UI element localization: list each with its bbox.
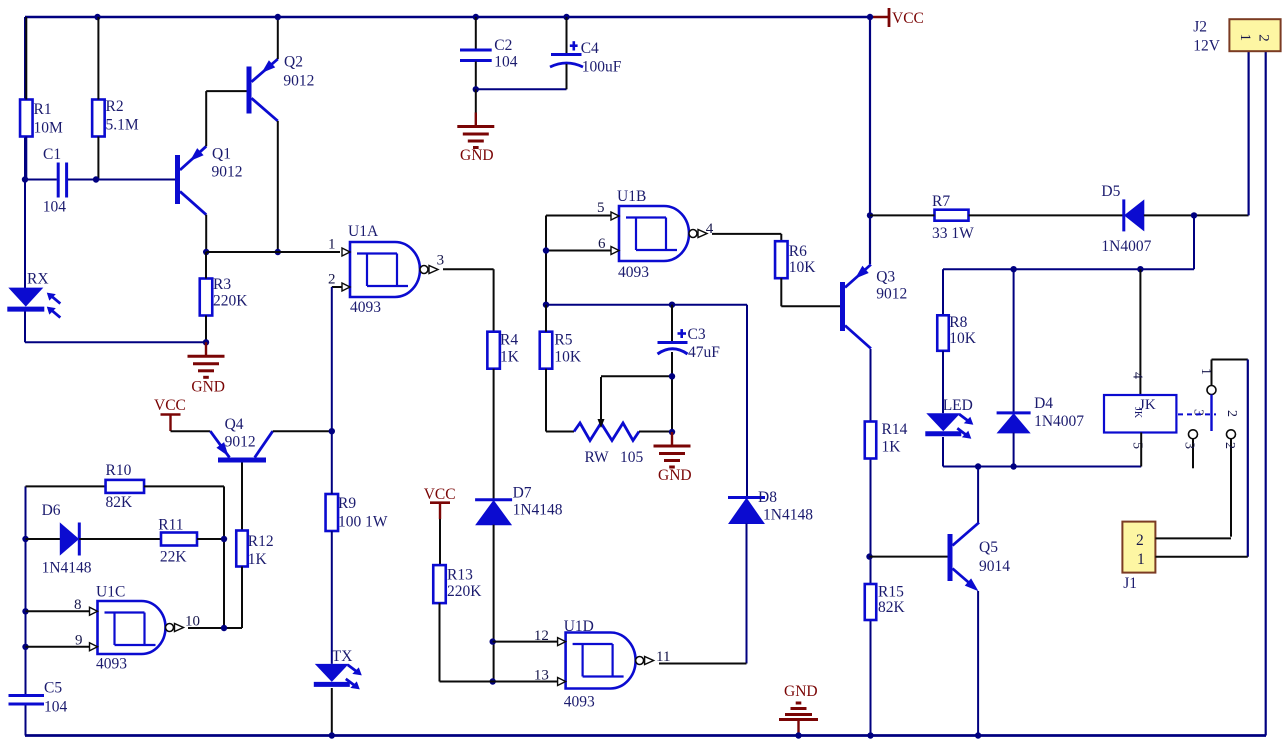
label C3 designator: [688, 326, 706, 343]
ground below RW: [654, 432, 691, 467]
junction R7 left node: [867, 212, 873, 218]
label C4 designator: [581, 40, 599, 57]
junction U1C output node: [221, 625, 227, 631]
wire R10 right lead: [144, 485, 224, 487]
capacitor C5: [9, 696, 45, 705]
wire C3 top lead: [671, 305, 673, 342]
svg-text:R14: R14: [882, 421, 908, 438]
label D5 value: [1101, 238, 1151, 255]
svg-text:1N4148: 1N4148: [763, 507, 813, 524]
junction C2 top rail: [473, 14, 479, 20]
svg-text:R1: R1: [34, 101, 52, 118]
label U1B designator: [617, 188, 646, 205]
svg-text:GND: GND: [784, 683, 818, 700]
ground bottom rail: [779, 703, 818, 736]
wire J1 pin1 lead: [1155, 556, 1247, 558]
label R9 value: [338, 514, 388, 531]
wire Q4 base down: [241, 463, 243, 531]
svg-text:1: 1: [1137, 551, 1145, 568]
wire C2 bottom lead: [475, 62, 477, 90]
svg-text:5: 5: [597, 200, 605, 216]
svg-text:R11: R11: [158, 517, 183, 534]
wire J1 pin2 lead: [1155, 537, 1231, 539]
svg-text:TX: TX: [332, 648, 353, 665]
junction D7 pin13 node: [490, 678, 496, 684]
wire U1B pin6 stub: [546, 250, 611, 252]
wire relay pin4 vertical: [1139, 269, 1141, 395]
svg-text:Q3: Q3: [876, 269, 895, 286]
junction VCC rail bottom: [867, 732, 873, 738]
wire J2 pin2 rail: [1265, 52, 1267, 736]
resistor R6: [775, 241, 788, 278]
label Q4 designator: [225, 416, 244, 433]
transistor Q5: [948, 523, 980, 592]
wire pin5 pin6 vertical: [545, 216, 547, 305]
resistor R9: [326, 494, 339, 531]
pin U1D pin13: [534, 668, 566, 686]
wire U1A output: [443, 268, 494, 270]
wire RW right lead: [639, 431, 672, 433]
label RW designator: [585, 449, 609, 466]
wire Q2 emitter to rail: [277, 17, 279, 59]
op-amp U1C (NAND gate): [98, 601, 184, 654]
wire J2 pin1 vertical: [1247, 52, 1249, 216]
junction VCC rail corner: [867, 14, 873, 20]
wire RX ground horizontal: [25, 341, 206, 343]
svg-text:3: 3: [437, 253, 445, 269]
wire Q2 base horizontal: [206, 90, 246, 92]
label D6 value: [42, 560, 92, 577]
svg-text:J1: J1: [1123, 575, 1137, 592]
wire output to R4: [493, 269, 495, 331]
wire D4 anode down: [1013, 433, 1015, 467]
wire U1B pin5 stub: [546, 215, 611, 217]
label D7 designator: [513, 485, 532, 502]
resistor R13: [433, 565, 446, 603]
wire C4 bottom horizontal: [476, 88, 567, 90]
label R1 value: [34, 120, 64, 137]
label R3 designator: [213, 276, 231, 293]
pin relay pin3 label: [1191, 409, 1206, 416]
junction R1 C1 node: [22, 176, 28, 182]
transistor Q2: [247, 59, 278, 121]
label R8 value: [949, 330, 977, 347]
svg-text:GND: GND: [191, 379, 225, 396]
svg-text:100 1W: 100 1W: [338, 514, 388, 531]
wire R2 top lead: [97, 17, 99, 100]
wire C2 gnd stub: [475, 89, 477, 113]
wire D7 anode down: [493, 525, 495, 682]
svg-text:12V: 12V: [1193, 38, 1221, 55]
svg-text:5: 5: [1130, 442, 1145, 449]
svg-text:2: 2: [1222, 442, 1237, 449]
svg-text:VCC: VCC: [424, 486, 456, 503]
svg-text:12: 12: [534, 628, 549, 644]
wire D4 cathode up: [1013, 269, 1015, 413]
junction D4 anode node: [1010, 463, 1016, 469]
label C4 value: [582, 59, 622, 76]
label LED designator: [943, 397, 973, 414]
label D8 value: [763, 507, 813, 524]
junction gnd bottom rail: [795, 732, 801, 738]
wire Q4 collector: [273, 430, 332, 432]
pin U1A pin2: [328, 272, 350, 292]
junction pin9 rail: [22, 644, 28, 650]
svg-text:Q4: Q4: [225, 416, 244, 433]
label RX designator: [27, 271, 49, 288]
label R10 designator: [106, 462, 132, 479]
label U1A part: [350, 299, 381, 316]
label Q1 value: [212, 164, 243, 181]
pin U1C pin9: [75, 633, 98, 651]
label R15 value: [878, 599, 906, 616]
junction relay pin4 node: [1137, 266, 1143, 272]
svg-text:Q5: Q5: [979, 539, 998, 556]
wire R8 top lead: [942, 269, 944, 315]
svg-text:1K: 1K: [248, 551, 268, 568]
svg-text:JK: JK: [1132, 407, 1143, 419]
label Q3 designator: [876, 269, 895, 286]
resistor R12: [236, 531, 248, 567]
wire R10 node vertical: [223, 486, 225, 628]
svg-text:D8: D8: [758, 489, 777, 506]
pin U1A pin1: [328, 237, 350, 257]
junction R11 node: [221, 536, 227, 542]
led TX: [314, 664, 362, 690]
wire D5 to J2 pin1: [1144, 214, 1249, 216]
svg-text:9012: 9012: [876, 286, 907, 303]
label R13 value: [447, 583, 482, 600]
label Q2 designator: [284, 54, 303, 71]
svg-text:GND: GND: [460, 147, 494, 164]
label R10 value: [106, 494, 134, 511]
svg-text:U1D: U1D: [564, 618, 594, 635]
wire left rail lower segment: [25, 486, 27, 695]
junction TX bottom rail: [329, 732, 335, 738]
label GND RW: [658, 467, 692, 484]
wire R3 top lead: [205, 252, 207, 279]
label R11 value: [160, 549, 188, 566]
label R11 designator: [158, 517, 183, 534]
wire switch1 to J1 rail: [1247, 360, 1249, 557]
svg-text:C4: C4: [581, 40, 599, 57]
svg-text:R15: R15: [878, 584, 904, 601]
svg-text:D6: D6: [42, 502, 61, 519]
power VCC Q4: [154, 397, 186, 431]
svg-text:105: 105: [620, 449, 644, 466]
label J2 value: [1193, 38, 1221, 55]
wire pin2 rail down: [331, 287, 333, 431]
switch contact 2: [1222, 430, 1237, 537]
svg-text:C1: C1: [43, 146, 61, 163]
connector J2: [1229, 19, 1280, 51]
wire R5 to RW: [546, 431, 574, 433]
junction R5 top node: [543, 302, 549, 308]
resistor R8: [937, 315, 949, 351]
resistor R10: [106, 480, 145, 493]
label U1C part: [96, 656, 127, 673]
wire D8 to U1D output: [659, 663, 747, 665]
svg-text:10K: 10K: [789, 259, 817, 276]
svg-text:1: 1: [1237, 33, 1253, 41]
power VCC top: [870, 8, 924, 27]
wire R4 to D7: [493, 369, 495, 500]
junction D7 pin12 node: [490, 638, 496, 644]
wire R11 right lead: [197, 538, 224, 540]
svg-text:R6: R6: [789, 243, 807, 260]
label R1 designator: [34, 101, 52, 118]
capacitor C1: [58, 163, 66, 198]
label U1D part: [564, 694, 595, 711]
label TX designator: [332, 648, 353, 665]
svg-text:D7: D7: [513, 485, 532, 502]
pin relay pin5 label: [1130, 442, 1145, 449]
label C5 designator: [44, 680, 62, 697]
label R9 designator: [338, 495, 356, 512]
wire node to U1A pin1: [206, 251, 340, 253]
svg-text:10M: 10M: [34, 120, 64, 137]
label C5 value: [44, 699, 68, 716]
photodiode RX: [7, 288, 60, 318]
wire U1C pin9 stub: [26, 646, 90, 648]
label U1D designator: [564, 618, 594, 635]
label R4 designator: [500, 332, 518, 349]
wire C1 left lead: [25, 179, 57, 181]
svg-text:47uF: 47uF: [688, 344, 720, 361]
label U1B part: [618, 264, 649, 281]
svg-text:1: 1: [328, 237, 336, 253]
svg-text:VCC: VCC: [154, 397, 186, 414]
junction Q5 emitter bottom: [975, 732, 981, 738]
svg-text:2: 2: [1136, 532, 1144, 549]
label GND C2: [460, 147, 494, 164]
wire Q3 collector to R14: [870, 349, 872, 421]
label D4 value: [1034, 413, 1084, 430]
wire TX cathode down: [331, 688, 333, 736]
label R13 designator: [447, 567, 473, 584]
wire left rail below C5: [25, 704, 27, 736]
capacitor C4: [550, 55, 583, 68]
label R14 designator: [882, 421, 908, 438]
transistor Q4: [210, 431, 272, 462]
svg-text:5.1M: 5.1M: [106, 117, 139, 134]
label C2 value: [494, 54, 518, 71]
svg-text:4093: 4093: [618, 264, 649, 281]
transistor Q1: [175, 146, 206, 214]
svg-text:R10: R10: [106, 462, 132, 479]
wire R3 bottom lead: [205, 316, 207, 343]
wire R8 to LED: [942, 351, 944, 413]
label Q5 designator: [979, 539, 998, 556]
ground below C2: [457, 113, 494, 148]
svg-text:RW: RW: [585, 449, 609, 466]
junction Q2 emitter top rail: [275, 14, 281, 20]
led LED: [925, 413, 973, 439]
label C2 designator: [494, 37, 512, 54]
wire timing node to D8: [746, 305, 748, 497]
pin U1D pin12: [534, 628, 566, 646]
junction C3 gnd node: [669, 429, 675, 435]
label RW value: [620, 449, 644, 466]
wire R7 to D5: [969, 214, 1124, 216]
switch contact 3: [1182, 430, 1198, 469]
label D8 designator: [758, 489, 777, 506]
wire U1C pin8 stub: [26, 610, 90, 612]
svg-text:22K: 22K: [160, 549, 188, 566]
wire R1 bottom lead: [25, 137, 27, 180]
svg-text:RX: RX: [27, 271, 49, 288]
svg-text:9012: 9012: [283, 73, 314, 90]
svg-text:GND: GND: [658, 467, 692, 484]
label GND R3: [191, 379, 225, 396]
junction D5 branch node: [1191, 212, 1197, 218]
svg-text:82K: 82K: [106, 494, 134, 511]
wire R2 bottom lead: [97, 137, 99, 180]
wire R7 left lead: [870, 214, 935, 216]
svg-text:D4: D4: [1034, 395, 1053, 412]
label C3 plus: [678, 329, 687, 338]
wire Q3 base: [781, 305, 840, 307]
label R5 value: [554, 349, 582, 366]
wire R5 bottom lead: [545, 369, 547, 432]
label R3 value: [213, 293, 248, 310]
label R7 designator: [932, 193, 950, 210]
svg-text:13: 13: [534, 668, 549, 684]
svg-text:Q1: Q1: [212, 146, 231, 163]
label D4 designator: [1034, 395, 1053, 412]
junction D4 top node: [1010, 266, 1016, 272]
wire left rail upper segment: [24, 17, 26, 288]
pin U1B pin4 label: [706, 221, 714, 237]
wire R13 bottom lead: [439, 603, 441, 681]
junction C3 top node: [669, 302, 675, 308]
wire RX cathode to ground node: [24, 309, 26, 343]
junction R3 ground node: [203, 339, 209, 345]
svg-text:104: 104: [44, 699, 68, 716]
svg-text:10K: 10K: [554, 349, 582, 366]
junction R2 bottom C1: [93, 176, 99, 182]
wire R15 to bottom rail: [870, 621, 872, 736]
resistor R7: [935, 210, 969, 221]
wire R6 bottom lead: [780, 278, 782, 306]
svg-text:R2: R2: [106, 98, 124, 115]
junction pin6 node: [543, 247, 549, 253]
label R6 designator: [789, 243, 807, 260]
svg-text:2: 2: [1224, 410, 1239, 417]
svg-text:VCC: VCC: [892, 10, 924, 27]
junction Q4 collector rail: [329, 428, 335, 434]
svg-text:R9: R9: [338, 495, 356, 512]
wire LED row horizontal: [943, 466, 1141, 468]
label Q5 value: [979, 558, 1010, 575]
svg-text:104: 104: [494, 54, 518, 71]
wire C2 top lead: [475, 17, 477, 49]
svg-text:1K: 1K: [500, 349, 520, 366]
connector J1: [1122, 522, 1155, 573]
svg-text:2: 2: [1256, 34, 1272, 42]
resistor R2: [92, 100, 105, 137]
svg-text:4: 4: [1130, 372, 1145, 379]
junction C4 top rail: [563, 14, 569, 20]
wire C4 bottom lead: [566, 64, 568, 89]
svg-text:R13: R13: [447, 567, 473, 584]
wire C4 top lead: [566, 17, 568, 55]
label R2 value: [106, 117, 139, 134]
label D7 value: [513, 502, 563, 519]
wire R5 top lead: [545, 305, 547, 332]
svg-text:R7: R7: [932, 193, 950, 210]
wire bottom ground rail: [25, 734, 1266, 737]
svg-text:R3: R3: [213, 276, 231, 293]
diode D4: [997, 413, 1031, 433]
svg-text:9012: 9012: [212, 164, 243, 181]
wire Q1 collector down: [205, 215, 207, 252]
svg-text:1N4007: 1N4007: [1101, 238, 1151, 255]
power VCC R13: [424, 486, 456, 519]
resistor R3: [200, 279, 213, 316]
op-amp U1A (NAND gate): [350, 242, 438, 297]
wire R10 left lead: [26, 485, 106, 487]
wire U1B output: [712, 233, 781, 235]
junction C3 wiper node: [669, 373, 675, 379]
svg-text:4093: 4093: [96, 656, 127, 673]
op-amp U1B (NAND gate): [619, 206, 707, 261]
wire Q5 emitter down: [977, 591, 979, 736]
svg-text:2: 2: [328, 272, 336, 288]
wire D6 to R11: [79, 538, 161, 540]
resistor R1: [20, 100, 33, 137]
svg-text:R8: R8: [949, 314, 967, 331]
svg-text:U1B: U1B: [617, 188, 646, 205]
label D5 designator: [1101, 183, 1120, 200]
potentiometer RW: [574, 377, 639, 441]
svg-text:C3: C3: [688, 326, 706, 343]
wire distribution horizontal: [943, 268, 1194, 270]
wire branch vertical: [1193, 215, 1195, 269]
label R4 value: [500, 349, 520, 366]
wire output to R6: [780, 234, 782, 241]
capacitor C2: [460, 50, 492, 61]
diode D5: [1124, 199, 1144, 231]
label C1 designator: [43, 146, 61, 163]
pin U1B pin6: [598, 236, 619, 255]
pin relay pin4 label: [1130, 372, 1145, 379]
svg-text:Q2: Q2: [284, 54, 303, 71]
svg-text:104: 104: [43, 199, 66, 216]
svg-text:1K: 1K: [882, 439, 902, 456]
junction Q5 base node: [866, 553, 872, 559]
pin U1B pin5: [597, 200, 619, 220]
wire top power rail: [25, 16, 870, 18]
label Q3 value: [876, 286, 907, 303]
svg-text:220K: 220K: [213, 293, 248, 310]
wire R1 top lead: [25, 17, 27, 100]
label J2 designator: [1193, 19, 1207, 36]
wire U1A pin2 stub: [332, 286, 342, 288]
junction R2 top: [94, 14, 100, 20]
label U1C designator: [96, 584, 125, 601]
transistor Q3: [840, 265, 871, 349]
wire R9 top lead: [331, 431, 333, 494]
ground below R3: [188, 342, 225, 377]
svg-text:3: 3: [1182, 442, 1197, 449]
svg-text:82K: 82K: [878, 599, 906, 616]
wire U1C output: [188, 627, 242, 629]
svg-text:J2: J2: [1193, 19, 1207, 36]
junction D6 anode rail: [22, 536, 28, 542]
label C1 value: [43, 199, 66, 216]
label GND bottom: [784, 683, 818, 700]
